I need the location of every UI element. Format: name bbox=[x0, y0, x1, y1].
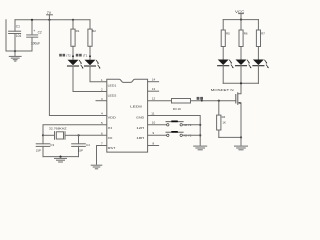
switch S2 pushbutton bbox=[166, 131, 183, 137]
net label yellow LED (CJK blobs) bbox=[76, 54, 82, 57]
wire VDD feed (rail to pin4) bbox=[49, 20, 106, 116]
LED D2 bbox=[85, 60, 101, 69]
node: rail / R1 junction bbox=[72, 19, 74, 21]
resistor R6 bbox=[239, 20, 243, 61]
svg-text:R7: R7 bbox=[261, 32, 265, 36]
resistor R1 bbox=[71, 20, 75, 60]
svg-text:(T2: (T2 bbox=[66, 54, 71, 58]
node: switch2 return bbox=[199, 134, 201, 136]
svg-text:R1: R1 bbox=[76, 29, 80, 33]
resistor R7 bbox=[256, 20, 260, 61]
ground GND2 (crystal) bbox=[55, 158, 67, 162]
wire pin13 stub bbox=[148, 90, 159, 92]
net label green LED (CJK blobs) bbox=[59, 54, 65, 57]
node: VCC rail junction bbox=[240, 19, 242, 21]
svg-text:C4: C4 bbox=[86, 143, 90, 147]
node: switch1 return bbox=[199, 124, 201, 126]
svg-text:+: + bbox=[33, 29, 35, 33]
svg-text:(T1: (T1 bbox=[83, 54, 88, 58]
capacitor C2 (electrolytic) bbox=[26, 34, 38, 38]
power net VCC bbox=[235, 10, 245, 19]
svg-text:104: 104 bbox=[16, 34, 22, 38]
node: source/ground junction bbox=[240, 136, 242, 138]
node: rail / C2 junction bbox=[31, 19, 33, 21]
wire LED2 cathode to pin1 bbox=[90, 66, 107, 82]
LED D5 bbox=[253, 60, 269, 69]
switch S1 pushbutton bbox=[166, 121, 183, 127]
node: crystal ground bbox=[59, 156, 61, 158]
node: LED1 anode bbox=[72, 55, 74, 57]
node: rail / VDD feed junction bbox=[48, 19, 50, 21]
wire crystal caps ground bus bbox=[43, 156, 79, 158]
resistor R5 bbox=[221, 20, 225, 61]
wire LED1 cathode to pin2 bbox=[73, 66, 107, 92]
svg-text:14: 14 bbox=[152, 78, 156, 82]
wire VCC rail bbox=[223, 19, 258, 21]
wire left vertical source loop bbox=[5, 20, 7, 51]
ground GND3 (RST) bbox=[91, 165, 102, 169]
svg-text:C2: C2 bbox=[38, 30, 42, 34]
wire S2 to ground rail bbox=[182, 134, 200, 136]
svg-text:12: 12 bbox=[152, 97, 156, 101]
wire XO (pin6 to crystal) bbox=[79, 134, 107, 136]
IC U1 body bbox=[107, 79, 148, 152]
wire pin8 stub bbox=[148, 145, 159, 147]
svg-text:12H: 12H bbox=[136, 126, 144, 130]
svg-text:RST: RST bbox=[108, 146, 116, 150]
wire RST to ground bbox=[97, 146, 107, 165]
wire S1 to ground rail bbox=[182, 124, 200, 126]
svg-text:1K: 1K bbox=[222, 121, 226, 125]
svg-text:GND: GND bbox=[136, 116, 145, 120]
LED D1 bbox=[68, 60, 84, 69]
svg-text:15P: 15P bbox=[36, 148, 41, 152]
ground GND5 (switches) bbox=[194, 146, 207, 150]
svg-text:LED1: LED1 bbox=[108, 84, 117, 88]
node: pulldown junction bbox=[218, 100, 220, 102]
resistor R4 pulldown bbox=[217, 101, 221, 138]
svg-text:7V: 7V bbox=[47, 11, 52, 15]
wire D3 cathode bbox=[222, 66, 224, 84]
svg-text:LED2: LED2 bbox=[108, 93, 117, 97]
net label lamp (CJK blobs) bbox=[197, 97, 203, 100]
capacitor C1 bbox=[9, 20, 21, 51]
capacitor C3 bbox=[36, 135, 50, 156]
svg-text:R3 1K: R3 1K bbox=[173, 107, 181, 111]
wire pin14 stub bbox=[148, 81, 159, 83]
svg-text:C1: C1 bbox=[16, 25, 20, 29]
wire bottom of input caps bbox=[6, 50, 32, 52]
node: crystal right bbox=[77, 134, 79, 136]
wire XI (pin5 to crystal) bbox=[43, 125, 107, 136]
wire pin11 GND to switch ground rail bbox=[148, 116, 201, 146]
svg-text:11: 11 bbox=[151, 112, 154, 116]
node: bus / drain junction bbox=[240, 82, 242, 84]
svg-text:15P: 15P bbox=[78, 148, 83, 152]
node: crystal left bbox=[42, 134, 44, 136]
transistor Q1 MOSFET N bbox=[211, 83, 241, 145]
LED D3 bbox=[218, 60, 234, 69]
crystal Y1 32.768KHZ bbox=[43, 132, 79, 140]
wire pin3 stub bbox=[96, 100, 107, 102]
resistor R3 bbox=[172, 99, 191, 104]
wire pulldown to source leg bbox=[219, 136, 241, 138]
svg-text:R6: R6 bbox=[244, 32, 248, 36]
wire +V rail bbox=[15, 19, 90, 21]
wire LED cathode bus bbox=[223, 82, 258, 84]
wire D5 cathode bbox=[257, 66, 259, 84]
svg-text:13: 13 bbox=[152, 87, 156, 91]
capacitor C4 bbox=[72, 135, 86, 156]
svg-text:R4: R4 bbox=[222, 115, 226, 119]
ground GND4 (MOSFET source) bbox=[235, 146, 248, 150]
power net 3V bbox=[47, 11, 53, 20]
resistor R2 bbox=[88, 20, 92, 60]
wire D4 cathode bbox=[240, 66, 242, 84]
svg-text:18H: 18H bbox=[136, 136, 144, 140]
svg-text:XO: XO bbox=[108, 136, 113, 140]
ground GND1 (input filter) bbox=[9, 51, 21, 61]
svg-text:100uF: 100uF bbox=[31, 42, 40, 46]
node: ground tap junction bbox=[14, 50, 16, 52]
svg-text:LED8: LED8 bbox=[130, 104, 142, 108]
wire pin10 to switch S1 bbox=[148, 124, 167, 126]
svg-text:R5: R5 bbox=[226, 32, 230, 36]
wire R3 to gate bbox=[191, 100, 236, 102]
svg-text:VDD: VDD bbox=[108, 116, 117, 120]
LED D4 bbox=[236, 60, 252, 69]
svg-text:R2: R2 bbox=[92, 29, 96, 33]
svg-text:C3: C3 bbox=[50, 143, 54, 147]
node: LED2 anode bbox=[89, 55, 91, 57]
wire pin9 to switch S2 bbox=[148, 134, 167, 136]
svg-text:XI: XI bbox=[108, 126, 113, 130]
wire pin12 to R3 bbox=[148, 100, 172, 102]
svg-text:10: 10 bbox=[152, 120, 156, 124]
node: gate net dot bbox=[201, 100, 203, 102]
svg-text:32.768KHZ: 32.768KHZ bbox=[49, 127, 67, 131]
svg-text:MOSFET N: MOSFET N bbox=[211, 88, 234, 92]
